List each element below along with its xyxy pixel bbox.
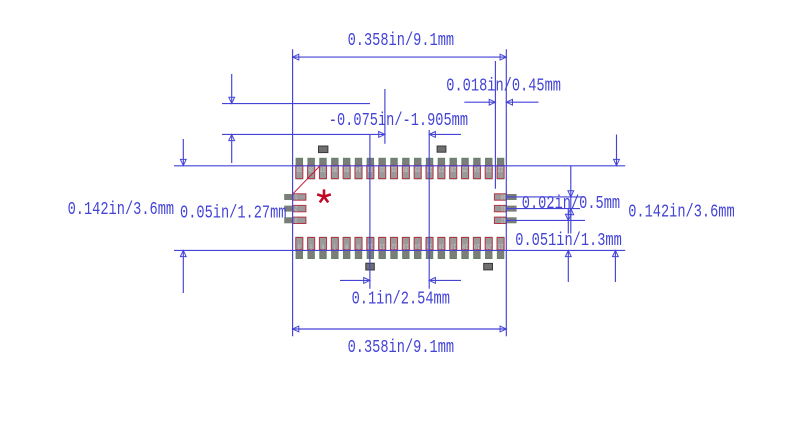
- svg-text:20: 20: [486, 242, 492, 250]
- svg-text:11: 11: [379, 242, 385, 250]
- svg-text:0.142in/3.6mm: 0.142in/3.6mm: [628, 201, 735, 223]
- svg-text:16: 16: [438, 242, 444, 250]
- svg-text:42: 42: [501, 216, 507, 224]
- svg-text:17: 17: [450, 242, 456, 250]
- svg-text:4: 4: [298, 242, 301, 250]
- svg-text:8: 8: [345, 242, 348, 250]
- svg-text:0.02in/0.5mm: 0.02in/0.5mm: [522, 192, 620, 214]
- svg-text:40: 40: [501, 192, 507, 200]
- svg-text:14: 14: [415, 242, 421, 250]
- svg-text:0.358in/9.1mm: 0.358in/9.1mm: [348, 29, 455, 51]
- svg-text:13: 13: [403, 242, 409, 250]
- svg-text:2: 2: [294, 204, 297, 212]
- svg-text:21: 21: [498, 242, 504, 250]
- svg-text:41: 41: [501, 204, 507, 212]
- svg-text:9: 9: [357, 242, 360, 250]
- svg-text:0.358in/9.1mm: 0.358in/9.1mm: [348, 336, 455, 358]
- svg-text:19: 19: [474, 242, 480, 250]
- svg-text:0.018in/0.45mm: 0.018in/0.45mm: [446, 74, 561, 96]
- svg-text:0.051in/1.3mm: 0.051in/1.3mm: [515, 229, 622, 251]
- svg-text:0.1in/2.54mm: 0.1in/2.54mm: [352, 287, 450, 309]
- svg-text:1: 1: [294, 192, 297, 200]
- svg-text:18: 18: [462, 242, 468, 250]
- svg-text:-0.075in/-1.905mm: -0.075in/-1.905mm: [329, 109, 468, 131]
- svg-text:6: 6: [321, 242, 324, 250]
- svg-text:12: 12: [391, 242, 397, 250]
- svg-text:0.142in/3.6mm: 0.142in/3.6mm: [68, 198, 175, 220]
- svg-text:5: 5: [310, 242, 313, 250]
- svg-text:3: 3: [294, 216, 297, 224]
- svg-text:0.05in/1.27mm: 0.05in/1.27mm: [180, 201, 287, 223]
- svg-text:7: 7: [333, 242, 336, 250]
